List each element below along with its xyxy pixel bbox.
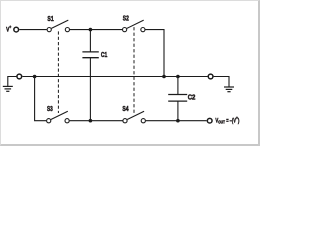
wire V+ to S1 xyxy=(19,29,46,31)
node C2 top junction xyxy=(176,75,180,79)
ground right symbol xyxy=(214,77,229,88)
svg-text:S1: S1 xyxy=(47,16,53,23)
terminal VOUT xyxy=(207,118,212,123)
capacitor C2 xyxy=(168,94,187,96)
node gnd branch junction xyxy=(33,75,37,79)
switch S4 xyxy=(123,119,127,123)
switch S2 xyxy=(123,28,127,32)
gang dashed line S1-S3 xyxy=(57,31,59,113)
svg-text:S2: S2 xyxy=(123,16,129,23)
terminal ground left xyxy=(17,74,22,79)
node A junction C1 top xyxy=(89,28,93,32)
node C1 bottom junction xyxy=(89,119,93,123)
node S2-gnd junction xyxy=(162,75,166,79)
switch S1 xyxy=(47,28,51,32)
svg-text:= –(V: = –(V xyxy=(226,117,236,124)
gang dashed line S2-S4 xyxy=(133,27,135,113)
wire S1 to node A xyxy=(70,29,91,31)
wire S4 to VOUT xyxy=(146,120,207,122)
capacitor C1 xyxy=(82,51,98,53)
terminal V+ input xyxy=(14,27,19,32)
svg-text:): ) xyxy=(238,117,240,124)
wire C1 node to S4 xyxy=(90,120,122,122)
wire gnd down to S3 xyxy=(35,77,47,121)
wire C2 bottom xyxy=(177,101,179,121)
terminal ground right xyxy=(208,74,213,79)
svg-text:S4: S4 xyxy=(122,106,128,113)
svg-text:+: + xyxy=(9,25,11,30)
wire ground rail xyxy=(22,76,207,78)
node C2 bottom junction xyxy=(176,119,180,123)
svg-text:C2: C2 xyxy=(188,95,196,102)
wire S3 to C1 bottom node xyxy=(70,120,91,122)
wire S2 to ground rail xyxy=(145,30,164,77)
wire C2 top xyxy=(177,77,179,95)
wire node A to S2 xyxy=(90,29,122,31)
svg-text:S3: S3 xyxy=(47,106,53,113)
wire C1 top xyxy=(89,30,91,52)
wire C1 bottom to bottom rail xyxy=(89,58,91,121)
switch S3 xyxy=(47,119,51,123)
ground left symbol xyxy=(8,77,17,87)
svg-text:OUT: OUT xyxy=(218,120,225,125)
svg-text:C1: C1 xyxy=(101,52,107,59)
